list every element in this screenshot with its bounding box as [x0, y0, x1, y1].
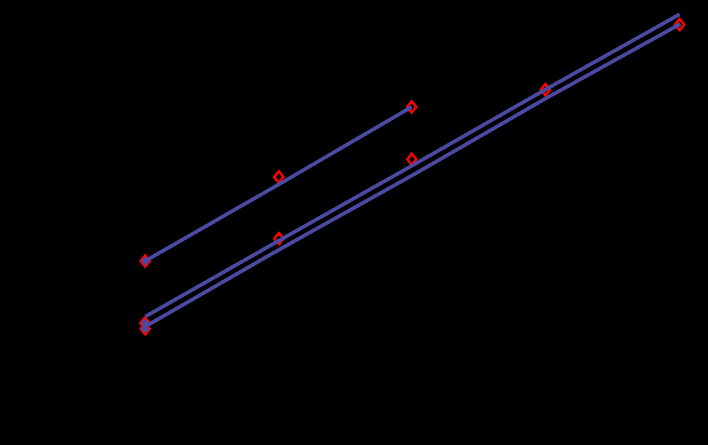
- red diamond marker F: [407, 154, 416, 165]
- red diamond marker E: [407, 101, 416, 112]
- red diamond marker B2: [141, 323, 150, 334]
- red diamond marker H: [675, 19, 684, 30]
- red diamond marker B1: [140, 318, 149, 329]
- red diamond marker C: [274, 233, 283, 244]
- blue filled diamond overlay at point A: [141, 257, 150, 266]
- blue filled diamond overlay at point B2: [141, 324, 150, 333]
- blue filled diamond overlay at point B1: [141, 319, 150, 328]
- red diamond marker A: [141, 255, 150, 266]
- series 1 line (short upper-left): [145, 107, 412, 261]
- red diamond marker D: [274, 171, 283, 182]
- series 2 line (upper of parallel pair): [145, 14, 679, 316]
- series 3 line (lower of parallel pair): [145, 24, 680, 327]
- red diamond marker G: [541, 84, 550, 95]
